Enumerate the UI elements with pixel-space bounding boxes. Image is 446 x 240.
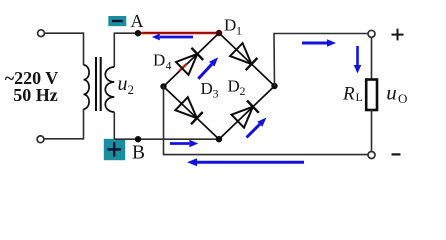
- transformer secondary winding: [105, 67, 114, 112]
- wire: top-left from terminal to primary: [45, 33, 84, 65]
- label u2 (secondary voltage): [118, 73, 135, 97]
- red highlighted wire A to D1: [141, 32, 219, 34]
- AC source terminal (top-left): [38, 30, 45, 37]
- wire: left node down and along bottom to - terminal: [164, 87, 369, 155]
- label uO: [386, 80, 407, 106]
- resistor RL: [366, 80, 377, 111]
- red dash on D4 edge: [179, 64, 187, 71]
- current arrow from B (right): [170, 140, 198, 147]
- output terminal + (top right circle): [368, 30, 375, 37]
- bridge right node dot: [271, 83, 277, 89]
- diode D4: [176, 48, 203, 75]
- label D1: [224, 16, 242, 38]
- svg-text:B: B: [132, 143, 145, 164]
- svg-text:4: 4: [166, 58, 172, 72]
- label ~220 V 50 Hz: [5, 68, 59, 105]
- label D4: [153, 51, 172, 73]
- wire: right node up and to + output terminal: [274, 34, 368, 87]
- svg-text:3: 3: [213, 87, 219, 101]
- current arrow through D2: [247, 118, 267, 138]
- svg-text:D: D: [201, 79, 213, 98]
- svg-text:u: u: [118, 73, 128, 95]
- wire: bottom-left from terminal to primary: [45, 109, 84, 139]
- svg-text:2: 2: [240, 84, 246, 98]
- svg-text:A: A: [131, 11, 144, 31]
- svg-text:u: u: [386, 80, 397, 104]
- label RL: [342, 83, 363, 104]
- wire: + terminal down to RL: [371, 37, 373, 79]
- wire: RL down to - terminal: [371, 110, 373, 152]
- svg-text:1: 1: [236, 24, 242, 38]
- svg-text:D: D: [153, 51, 165, 70]
- current arrow return along bottom (left): [187, 158, 304, 166]
- label D2: [228, 76, 246, 98]
- diode D2: [232, 101, 259, 128]
- polarity box minus (at A): [108, 16, 126, 26]
- node A junction dot: [135, 30, 141, 36]
- transformer primary winding: [84, 65, 90, 109]
- wire: node B to bridge bottom node: [114, 138, 219, 140]
- wire: secondary top to node A: [114, 33, 138, 67]
- AC source terminal (bottom-left): [37, 136, 44, 143]
- svg-text:D: D: [224, 16, 236, 35]
- bridge top node dot: [216, 30, 222, 36]
- output terminal - (bottom right circle): [368, 152, 375, 159]
- wire: secondary bottom to node B: [113, 112, 115, 139]
- svg-text:R: R: [342, 83, 355, 104]
- label D3: [201, 79, 219, 100]
- bridge edge D4 (left node to top node): [164, 33, 220, 87]
- bridge edge D1 (top node to right node): [219, 33, 275, 86]
- svg-text:L: L: [356, 90, 363, 104]
- current arrow into A (left): [152, 34, 193, 41]
- svg-text:O: O: [398, 91, 407, 106]
- current arrow through D4: [198, 57, 218, 79]
- bridge bottom node dot: [216, 136, 222, 142]
- node B junction dot: [135, 136, 141, 142]
- label - (output): [392, 153, 401, 155]
- polarity box plus (at B): [104, 139, 125, 160]
- transformer core: [96, 57, 101, 111]
- bridge edge D2 (bottom node to right node): [219, 86, 275, 139]
- current arrow to + terminal (right): [302, 39, 336, 47]
- svg-text:D: D: [228, 76, 240, 95]
- label + (output): [392, 29, 404, 41]
- current arrow through RL (down): [354, 46, 362, 74]
- diode D1: [230, 43, 257, 70]
- bridge left node dot: [160, 83, 166, 89]
- diode D3: [175, 97, 202, 124]
- wire: node A to bridge top (black under red): [138, 32, 219, 34]
- svg-text:50 Hz: 50 Hz: [13, 85, 58, 105]
- bridge edge D3 (left node to bottom node): [164, 87, 220, 140]
- svg-text:2: 2: [128, 82, 135, 97]
